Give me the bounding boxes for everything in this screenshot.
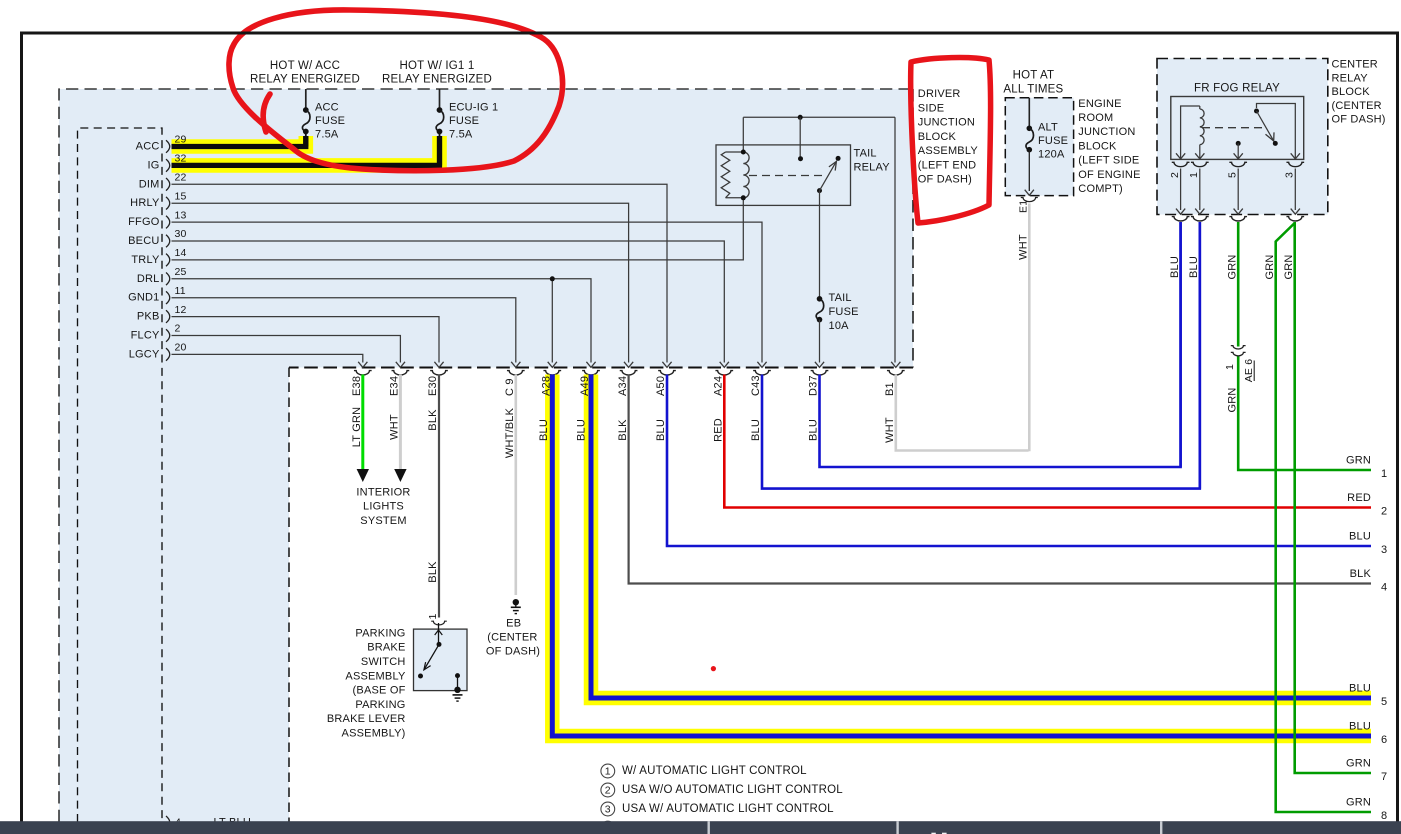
svg-text:JUNCTION: JUNCTION: [1078, 126, 1135, 138]
tail relay box: [716, 145, 890, 206]
svg-text:5: 5: [1381, 696, 1387, 708]
tail relay top bus: [743, 115, 895, 152]
svg-text:PKB: PKB: [137, 311, 160, 323]
svg-text:7: 7: [1381, 771, 1387, 783]
svg-text:GRN: GRN: [1283, 254, 1295, 279]
svg-text:LIGHTS: LIGHTS: [363, 501, 404, 513]
svg-text:30: 30: [175, 228, 187, 240]
svg-text:BLK: BLK: [1350, 568, 1372, 580]
driver side junction block label: [918, 88, 979, 186]
svg-text:GRN: GRN: [1226, 387, 1238, 412]
footnotes automatic light control: [601, 764, 844, 834]
svg-text:FUSE: FUSE: [315, 115, 345, 127]
svg-text:FUSE: FUSE: [1038, 135, 1068, 147]
svg-text:20: 20: [175, 342, 187, 354]
svg-text:SWITCH: SWITCH: [361, 656, 406, 668]
svg-text:(CENTER: (CENTER: [1332, 100, 1382, 112]
svg-text:2: 2: [1381, 506, 1387, 518]
wire DIM to A50: [172, 184, 672, 367]
svg-text:BLU: BLU: [1188, 256, 1200, 278]
svg-text:BLU: BLU: [808, 419, 820, 441]
svg-text:DRL: DRL: [137, 273, 160, 285]
connector E1: [1018, 198, 1038, 214]
wire fog pin2 BLU: [1169, 222, 1181, 467]
svg-text:GRN: GRN: [1346, 455, 1371, 467]
svg-text:FUSE: FUSE: [829, 306, 859, 318]
svg-text:TAIL: TAIL: [829, 292, 852, 304]
hot w/ acc label: [250, 60, 360, 86]
svg-text:BRAKE: BRAKE: [367, 642, 405, 654]
svg-text:GND1: GND1: [128, 292, 159, 304]
svg-text:HOT W/ IG1 1: HOT W/ IG1 1: [399, 60, 474, 72]
svg-text:HOT W/ ACC: HOT W/ ACC: [270, 60, 340, 72]
svg-text:25: 25: [175, 266, 187, 278]
svg-text:INTERIOR: INTERIOR: [356, 486, 410, 498]
svg-text:ECU-IG 1: ECU-IG 1: [449, 102, 498, 114]
wire A34 BLK to terminal 4: [617, 375, 1371, 584]
wire A50 BLU to terminal 3: [655, 375, 1371, 547]
svg-text:W/ AUTOMATIC LIGHT CONTROL: W/ AUTOMATIC LIGHT CONTROL: [622, 765, 807, 777]
svg-text:(LEFT SIDE: (LEFT SIDE: [1078, 155, 1139, 167]
svg-text:BLU: BLU: [750, 419, 762, 441]
svg-text:BLOCK: BLOCK: [918, 131, 957, 143]
svg-text:AE 6: AE 6: [1243, 359, 1255, 383]
svg-text:USA W/ AUTOMATIC LIGHT CONTROL: USA W/ AUTOMATIC LIGHT CONTROL: [622, 803, 834, 815]
wire E30 BLK to parking brake switch: [427, 375, 447, 625]
parking brake switch assembly: [414, 623, 468, 701]
svg-text:E1: E1: [1018, 200, 1030, 213]
bottom toolbar: [0, 821, 1401, 834]
svg-text:ALL TIMES: ALL TIMES: [1003, 83, 1063, 95]
partial LT BLU row: [166, 816, 251, 829]
svg-text:22: 22: [175, 172, 187, 184]
svg-text:BLOCK: BLOCK: [1332, 86, 1371, 98]
svg-text:15: 15: [175, 190, 187, 202]
wire C9 WHT/BLK to EB ground: [504, 375, 516, 596]
svg-text:ROOM: ROOM: [1078, 112, 1113, 124]
engine room junction block label: [1078, 98, 1140, 195]
svg-text:LGCY: LGCY: [129, 348, 160, 360]
tail relay coil and resistor: [721, 150, 749, 201]
svg-text:ASSEMBLY: ASSEMBLY: [345, 670, 406, 682]
svg-text:OF DASH): OF DASH): [918, 174, 972, 186]
svg-text:DIM: DIM: [139, 178, 160, 190]
svg-text:OF DASH): OF DASH): [1332, 114, 1386, 126]
center relay block dashed border: [1157, 59, 1328, 215]
svg-text:10A: 10A: [829, 320, 850, 332]
svg-text:BLU: BLU: [655, 419, 667, 441]
svg-text:ACC: ACC: [136, 141, 160, 153]
annotation red loop around fuses: [229, 10, 563, 171]
svg-text:RELAY: RELAY: [1332, 72, 1369, 84]
wire BECU to A24: [172, 241, 729, 367]
wire E38 LT GRN to interior lights: [351, 375, 369, 483]
wire D37 BLU to fog relay pin 2: [808, 222, 1181, 467]
fuse ALT 120A: [1025, 98, 1068, 196]
svg-text:WHT: WHT: [388, 414, 400, 440]
fuse ACC 7.5A: [302, 89, 345, 141]
wire fog pin5 GRN to terminal 1 with AE6: [1226, 222, 1371, 470]
wire A28 yellow/blue to terminal 6: [538, 375, 1371, 737]
interior lights system label: [356, 486, 410, 526]
svg-text:1: 1: [605, 766, 611, 778]
svg-text:GRN: GRN: [1226, 254, 1238, 279]
svg-text:SYSTEM: SYSTEM: [360, 515, 406, 527]
svg-text:13: 13: [175, 209, 187, 221]
svg-text:FUSE: FUSE: [449, 115, 479, 127]
wire ACC yellow/black to ACC fuse: [172, 132, 306, 147]
svg-text:14: 14: [175, 247, 187, 259]
svg-text:FFGO: FFGO: [128, 216, 160, 228]
svg-text:EB: EB: [506, 617, 521, 629]
svg-text:GRN: GRN: [1264, 254, 1276, 279]
svg-text:2: 2: [1169, 172, 1181, 178]
left connector pins ACC..LGCY: [128, 134, 186, 361]
wire fog pin3 GRN to terminal 7: [1283, 222, 1371, 773]
svg-text:BLK: BLK: [427, 561, 439, 583]
svg-text:OF DASH): OF DASH): [486, 646, 540, 658]
svg-text:E38: E38: [351, 376, 363, 396]
svg-text:ASSEMBLY: ASSEMBLY: [918, 145, 979, 157]
wire FLCY to E34: [172, 336, 406, 368]
svg-text:12: 12: [175, 304, 187, 316]
svg-text:WHT: WHT: [1018, 234, 1030, 260]
svg-text:3: 3: [605, 804, 611, 816]
wire TRLY to relay coil: [172, 198, 744, 260]
svg-text:7.5A: 7.5A: [449, 129, 473, 141]
svg-text:E30: E30: [427, 376, 439, 396]
wire HRLY to A34: [172, 203, 634, 367]
svg-text:A34: A34: [617, 376, 629, 396]
svg-text:1: 1: [427, 613, 439, 619]
annotation red loop around driver side label: [911, 58, 991, 223]
annotation red dot: [711, 666, 716, 671]
junction block dashed border: [59, 89, 913, 822]
svg-text:2: 2: [175, 323, 181, 335]
svg-text:1: 1: [1381, 468, 1387, 480]
svg-text:BLOCK: BLOCK: [1078, 140, 1117, 152]
svg-text:C 9: C 9: [504, 378, 516, 396]
svg-text:GRN: GRN: [1346, 797, 1371, 809]
connector AE6: [1224, 346, 1255, 383]
fr fog relay title: [1194, 83, 1280, 95]
wire A49 yellow/blue to terminal 5: [575, 375, 1371, 699]
svg-text:A28: A28: [541, 376, 553, 396]
svg-text:PARKING: PARKING: [355, 627, 405, 639]
wire E34 WHT to interior lights: [388, 375, 406, 483]
svg-text:FLCY: FLCY: [131, 330, 160, 342]
svg-text:3: 3: [1284, 172, 1296, 178]
svg-text:WHT: WHT: [884, 417, 896, 443]
wire A24 RED to terminal 2: [713, 375, 1372, 508]
svg-text:RED: RED: [1347, 492, 1371, 504]
wire IG yellow/black to ECU-IG fuse: [172, 132, 440, 166]
svg-text:LT GRN: LT GRN: [351, 407, 363, 448]
svg-text:32: 32: [175, 153, 187, 165]
fog relay switch: [1254, 104, 1295, 160]
wire PKB to E30: [172, 317, 444, 368]
svg-text:COMPT): COMPT): [1078, 183, 1123, 195]
center relay block shaded region: [1157, 59, 1328, 215]
wire LGCY to E38: [172, 354, 368, 367]
svg-text:11: 11: [175, 285, 186, 297]
fog relay pin arrows and brackets: [1169, 153, 1304, 221]
tail relay switch: [798, 117, 841, 193]
svg-text:RED: RED: [713, 418, 725, 442]
svg-text:ENGINE: ENGINE: [1078, 98, 1121, 110]
tail fuse 10A: [815, 191, 859, 368]
svg-text:A50: A50: [655, 376, 667, 396]
svg-text:E34: E34: [389, 376, 401, 396]
hot w/ ig1 label: [382, 60, 492, 86]
svg-text:120A: 120A: [1038, 149, 1065, 161]
svg-text:6: 6: [1381, 734, 1387, 746]
center relay block label: [1332, 59, 1386, 126]
svg-text:(BASE OF: (BASE OF: [353, 685, 406, 697]
wire DRL to A49 with branch to A28: [172, 276, 596, 367]
wire C43 BLU to fog relay pin 1: [750, 222, 1200, 489]
wire fog pin1 BLU: [1188, 222, 1200, 489]
connector pin name labels: [351, 375, 896, 396]
svg-text:1: 1: [1224, 364, 1236, 370]
svg-text:BLK: BLK: [617, 419, 629, 441]
engine room junction block shaded region: [1005, 98, 1073, 196]
svg-text:A49: A49: [579, 376, 591, 396]
svg-text:BLU: BLU: [575, 419, 587, 441]
svg-text:WHT/BLK: WHT/BLK: [504, 407, 516, 458]
svg-text:PARKING: PARKING: [355, 699, 405, 711]
svg-text:D37: D37: [808, 375, 820, 396]
svg-text:OF ENGINE: OF ENGINE: [1078, 169, 1140, 181]
svg-text:5: 5: [1226, 172, 1238, 178]
fog relay pin5 contact: [1236, 141, 1241, 160]
svg-text:BLU: BLU: [1169, 256, 1181, 278]
svg-text:DRIVER: DRIVER: [918, 88, 961, 100]
engine room junction block dashed border: [1005, 98, 1073, 196]
svg-text:BLU: BLU: [1349, 531, 1371, 543]
svg-text:CENTER: CENTER: [1332, 59, 1378, 71]
svg-text:HRLY: HRLY: [130, 197, 160, 209]
svg-text:7.5A: 7.5A: [315, 129, 339, 141]
svg-text:IG: IG: [147, 159, 159, 171]
svg-text:FR FOG RELAY: FR FOG RELAY: [1194, 83, 1280, 95]
svg-text:ACC: ACC: [315, 102, 339, 114]
svg-text:(CENTER: (CENTER: [487, 632, 537, 644]
hot at all times label: [1003, 69, 1063, 95]
svg-text:TAIL: TAIL: [854, 148, 877, 160]
svg-text:C43: C43: [750, 375, 762, 396]
svg-text:ALT: ALT: [1038, 122, 1058, 134]
svg-text:ASSEMBLY): ASSEMBLY): [342, 728, 406, 740]
svg-text:RELAY ENERGIZED: RELAY ENERGIZED: [382, 74, 492, 86]
svg-text:A24: A24: [713, 376, 725, 396]
svg-text:JUNCTION: JUNCTION: [918, 117, 975, 129]
terminal color labels and numbers: [1346, 455, 1387, 823]
wire bus to B1: [891, 117, 900, 367]
svg-text:RELAY ENERGIZED: RELAY ENERGIZED: [250, 74, 360, 86]
svg-text:3: 3: [1381, 544, 1387, 556]
svg-text:BECU: BECU: [128, 235, 159, 247]
wire GND1 to C9: [172, 298, 521, 368]
inner connector dashed box: [78, 128, 163, 822]
tail relay mech dashed link: [749, 175, 824, 177]
svg-text:8: 8: [1381, 810, 1387, 822]
svg-text:BLK: BLK: [427, 409, 439, 431]
svg-text:SIDE: SIDE: [918, 102, 944, 114]
wire E1 WHT: [1018, 204, 1030, 452]
svg-text:USA W/O AUTOMATIC LIGHT CONTRO: USA W/O AUTOMATIC LIGHT CONTROL: [622, 784, 843, 796]
ground EB: [486, 599, 540, 658]
driver side junction block shaded region: [59, 89, 913, 822]
svg-text:BLU: BLU: [1349, 721, 1371, 733]
svg-text:GRN: GRN: [1346, 758, 1371, 770]
wire B1 WHT to E1: [884, 375, 1029, 451]
svg-text:HOT AT: HOT AT: [1013, 69, 1055, 81]
parking brake text: [327, 627, 406, 739]
svg-text:B1: B1: [884, 382, 896, 396]
connector row pins: [354, 371, 905, 375]
svg-text:BRAKE LEVER: BRAKE LEVER: [327, 713, 406, 725]
fuse ECU-IG 1 7.5A: [436, 89, 498, 141]
fr fog relay box: [1171, 97, 1304, 160]
wire fog pin3 branch GRN to terminal 8: [1264, 223, 1371, 812]
fog relay mech dashed link: [1202, 127, 1265, 129]
svg-text:1: 1: [1188, 172, 1200, 178]
svg-text:2: 2: [605, 785, 611, 797]
svg-text:(LEFT END: (LEFT END: [918, 159, 976, 171]
svg-text:TRLY: TRLY: [131, 254, 160, 266]
wire FFGO to C43: [172, 222, 767, 367]
svg-text:RELAY: RELAY: [854, 162, 891, 174]
svg-text:4: 4: [1381, 582, 1387, 594]
fog relay coil: [1181, 106, 1205, 159]
svg-text:BLU: BLU: [1349, 683, 1371, 695]
svg-text:BLU: BLU: [538, 419, 550, 441]
svg-text:29: 29: [175, 134, 187, 146]
